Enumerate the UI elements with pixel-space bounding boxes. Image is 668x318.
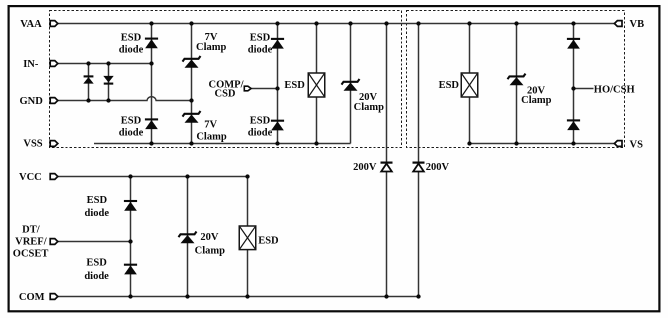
zener Z3 20V clamp (left block) <box>342 79 360 91</box>
junction dots GND node <box>86 98 193 102</box>
wire column G (200V diode right) <box>418 24 420 297</box>
svg-text:200V: 200V <box>426 162 450 173</box>
pin IN- <box>50 61 58 67</box>
svg-text:VCC: VCC <box>19 172 42 183</box>
wire DT/VREF/OCSET <box>58 241 131 243</box>
wire column K2 (lower 20V clamp) <box>187 177 189 297</box>
svg-text:IN-: IN- <box>23 59 39 70</box>
junction dot COMP node <box>275 86 279 90</box>
junction dots COM rail <box>128 294 420 298</box>
diode D8 200V blocking diode right <box>413 163 425 172</box>
svg-text:7V: 7V <box>204 120 217 131</box>
pin GND <box>50 98 58 104</box>
pin VSS <box>50 141 58 147</box>
svg-text:Clamp: Clamp <box>196 131 226 142</box>
diode D3 antiparallel up (IN-/GND) <box>83 76 93 83</box>
junction dot HO/CSH node <box>571 86 575 90</box>
wire COM rail <box>58 296 419 298</box>
svg-text:Clamp: Clamp <box>196 42 226 53</box>
wire column H (right ESD cell) <box>469 24 471 144</box>
svg-text:diode: diode <box>85 208 110 219</box>
svg-text:diode: diode <box>119 127 144 138</box>
svg-text:diode: diode <box>248 45 273 56</box>
diode D1 ESD diode (VAA/IN-) <box>145 39 158 49</box>
svg-text:DT/: DT/ <box>22 225 41 236</box>
svg-text:ESD: ESD <box>121 115 142 126</box>
wire column E (20V clamp) <box>350 24 352 144</box>
svg-text:ESD: ESD <box>250 33 271 44</box>
svg-text:diode: diode <box>84 271 109 282</box>
svg-text:Clamp: Clamp <box>195 246 225 257</box>
ESD cell U1 crossed box (left block) <box>308 73 325 97</box>
wire column I (right 20V clamp) <box>516 24 518 144</box>
pin DT/VREF/OCSET <box>50 239 58 245</box>
wire VSS rail <box>94 143 351 145</box>
svg-text:Clamp: Clamp <box>354 102 384 113</box>
svg-text:ESD: ESD <box>284 80 305 91</box>
dashed boundary: left low-voltage block <box>50 11 402 148</box>
dashed boundary: right high-side block <box>407 11 625 148</box>
diode D11 ESD diode (VCC/DT) <box>124 201 137 211</box>
svg-text:ESD: ESD <box>87 195 108 206</box>
svg-text:COM: COM <box>19 292 45 303</box>
svg-text:diode: diode <box>119 44 144 55</box>
pin COM <box>50 294 58 300</box>
wire stub antiparallel left <box>88 64 90 101</box>
zener Z5 20V clamp (lower block) <box>179 232 197 244</box>
junction dots VAA-VB rail <box>149 21 575 25</box>
junction dot DT node <box>128 239 132 243</box>
junction dots VSS rail <box>149 141 318 145</box>
wire COMP/CSD <box>251 88 277 90</box>
diode D4 antiparallel down (IN-/GND) <box>103 76 113 84</box>
svg-text:ESD: ESD <box>258 236 279 247</box>
pin VCC <box>50 174 58 180</box>
svg-text:ESD: ESD <box>250 116 271 127</box>
wire column F (200V diode left) <box>386 24 388 297</box>
svg-text:CSD: CSD <box>214 89 235 100</box>
svg-text:ESD: ESD <box>439 80 460 91</box>
wire column K1 (VCC ESD diodes) <box>130 177 132 297</box>
svg-text:ESD: ESD <box>86 258 107 269</box>
junction dots VCC rail <box>128 174 249 178</box>
wire stub antiparallel right <box>108 64 110 101</box>
wire column C (COMP ESD diodes) <box>277 24 279 144</box>
diode D6 ESD diode (COMP lower) <box>271 121 284 131</box>
svg-text:diode: diode <box>248 128 273 139</box>
svg-text:HO/CSH: HO/CSH <box>594 84 635 95</box>
svg-text:VSS: VSS <box>23 138 42 149</box>
svg-text:200V: 200V <box>353 162 377 173</box>
wire IN- <box>58 63 152 65</box>
pin VB <box>614 21 622 27</box>
wire VS rail <box>470 143 615 145</box>
pin VS <box>614 141 622 147</box>
svg-text:VREF/: VREF/ <box>15 237 48 248</box>
diode D9 HO/CSH upper <box>567 39 580 49</box>
pin VAA <box>50 21 58 27</box>
svg-text:ESD: ESD <box>121 33 142 44</box>
wire VAA-VB top rail <box>58 23 615 25</box>
diode D12 ESD diode (DT/COM) <box>124 265 137 275</box>
svg-text:VB: VB <box>630 19 645 30</box>
svg-text:VS: VS <box>630 139 644 150</box>
wire VCC rail <box>58 176 248 178</box>
wire column K3 (lower ESD cell) <box>247 177 249 297</box>
pin COMP/CSD <box>244 86 251 91</box>
zener Z2 7V clamp lower <box>183 111 201 123</box>
junction dots VS rail <box>467 141 575 145</box>
wire column B (7V clamps) <box>191 24 193 144</box>
wire column J (HO/CSH diodes) <box>573 24 575 144</box>
diode D5 ESD diode (COMP upper) <box>271 39 284 49</box>
diode D2 ESD diode (IN-/VSS) <box>145 119 158 129</box>
ESD cell U3 crossed box (lower block) <box>239 226 256 250</box>
svg-text:OCSET: OCSET <box>13 249 49 260</box>
svg-text:Clamp: Clamp <box>521 95 551 106</box>
zener Z1 7V clamp upper <box>183 56 201 68</box>
diode D7 200V blocking diode left <box>381 163 393 172</box>
wire column A (ESD diodes VAA-VSS) <box>151 24 153 144</box>
svg-text:20V: 20V <box>200 232 219 243</box>
wire HO/CSH tap <box>574 88 594 90</box>
svg-text:GND: GND <box>20 96 44 107</box>
wire column D (ESD cell) <box>316 24 318 144</box>
zener Z4 20V clamp (right block) <box>508 74 526 86</box>
svg-text:VAA: VAA <box>20 19 42 30</box>
ESD cell U2 crossed box (right block) <box>461 73 478 97</box>
wire GND with hop over column A <box>58 97 192 101</box>
diode D10 HO/CSH lower <box>567 120 580 130</box>
junction dots IN- node <box>86 61 153 65</box>
